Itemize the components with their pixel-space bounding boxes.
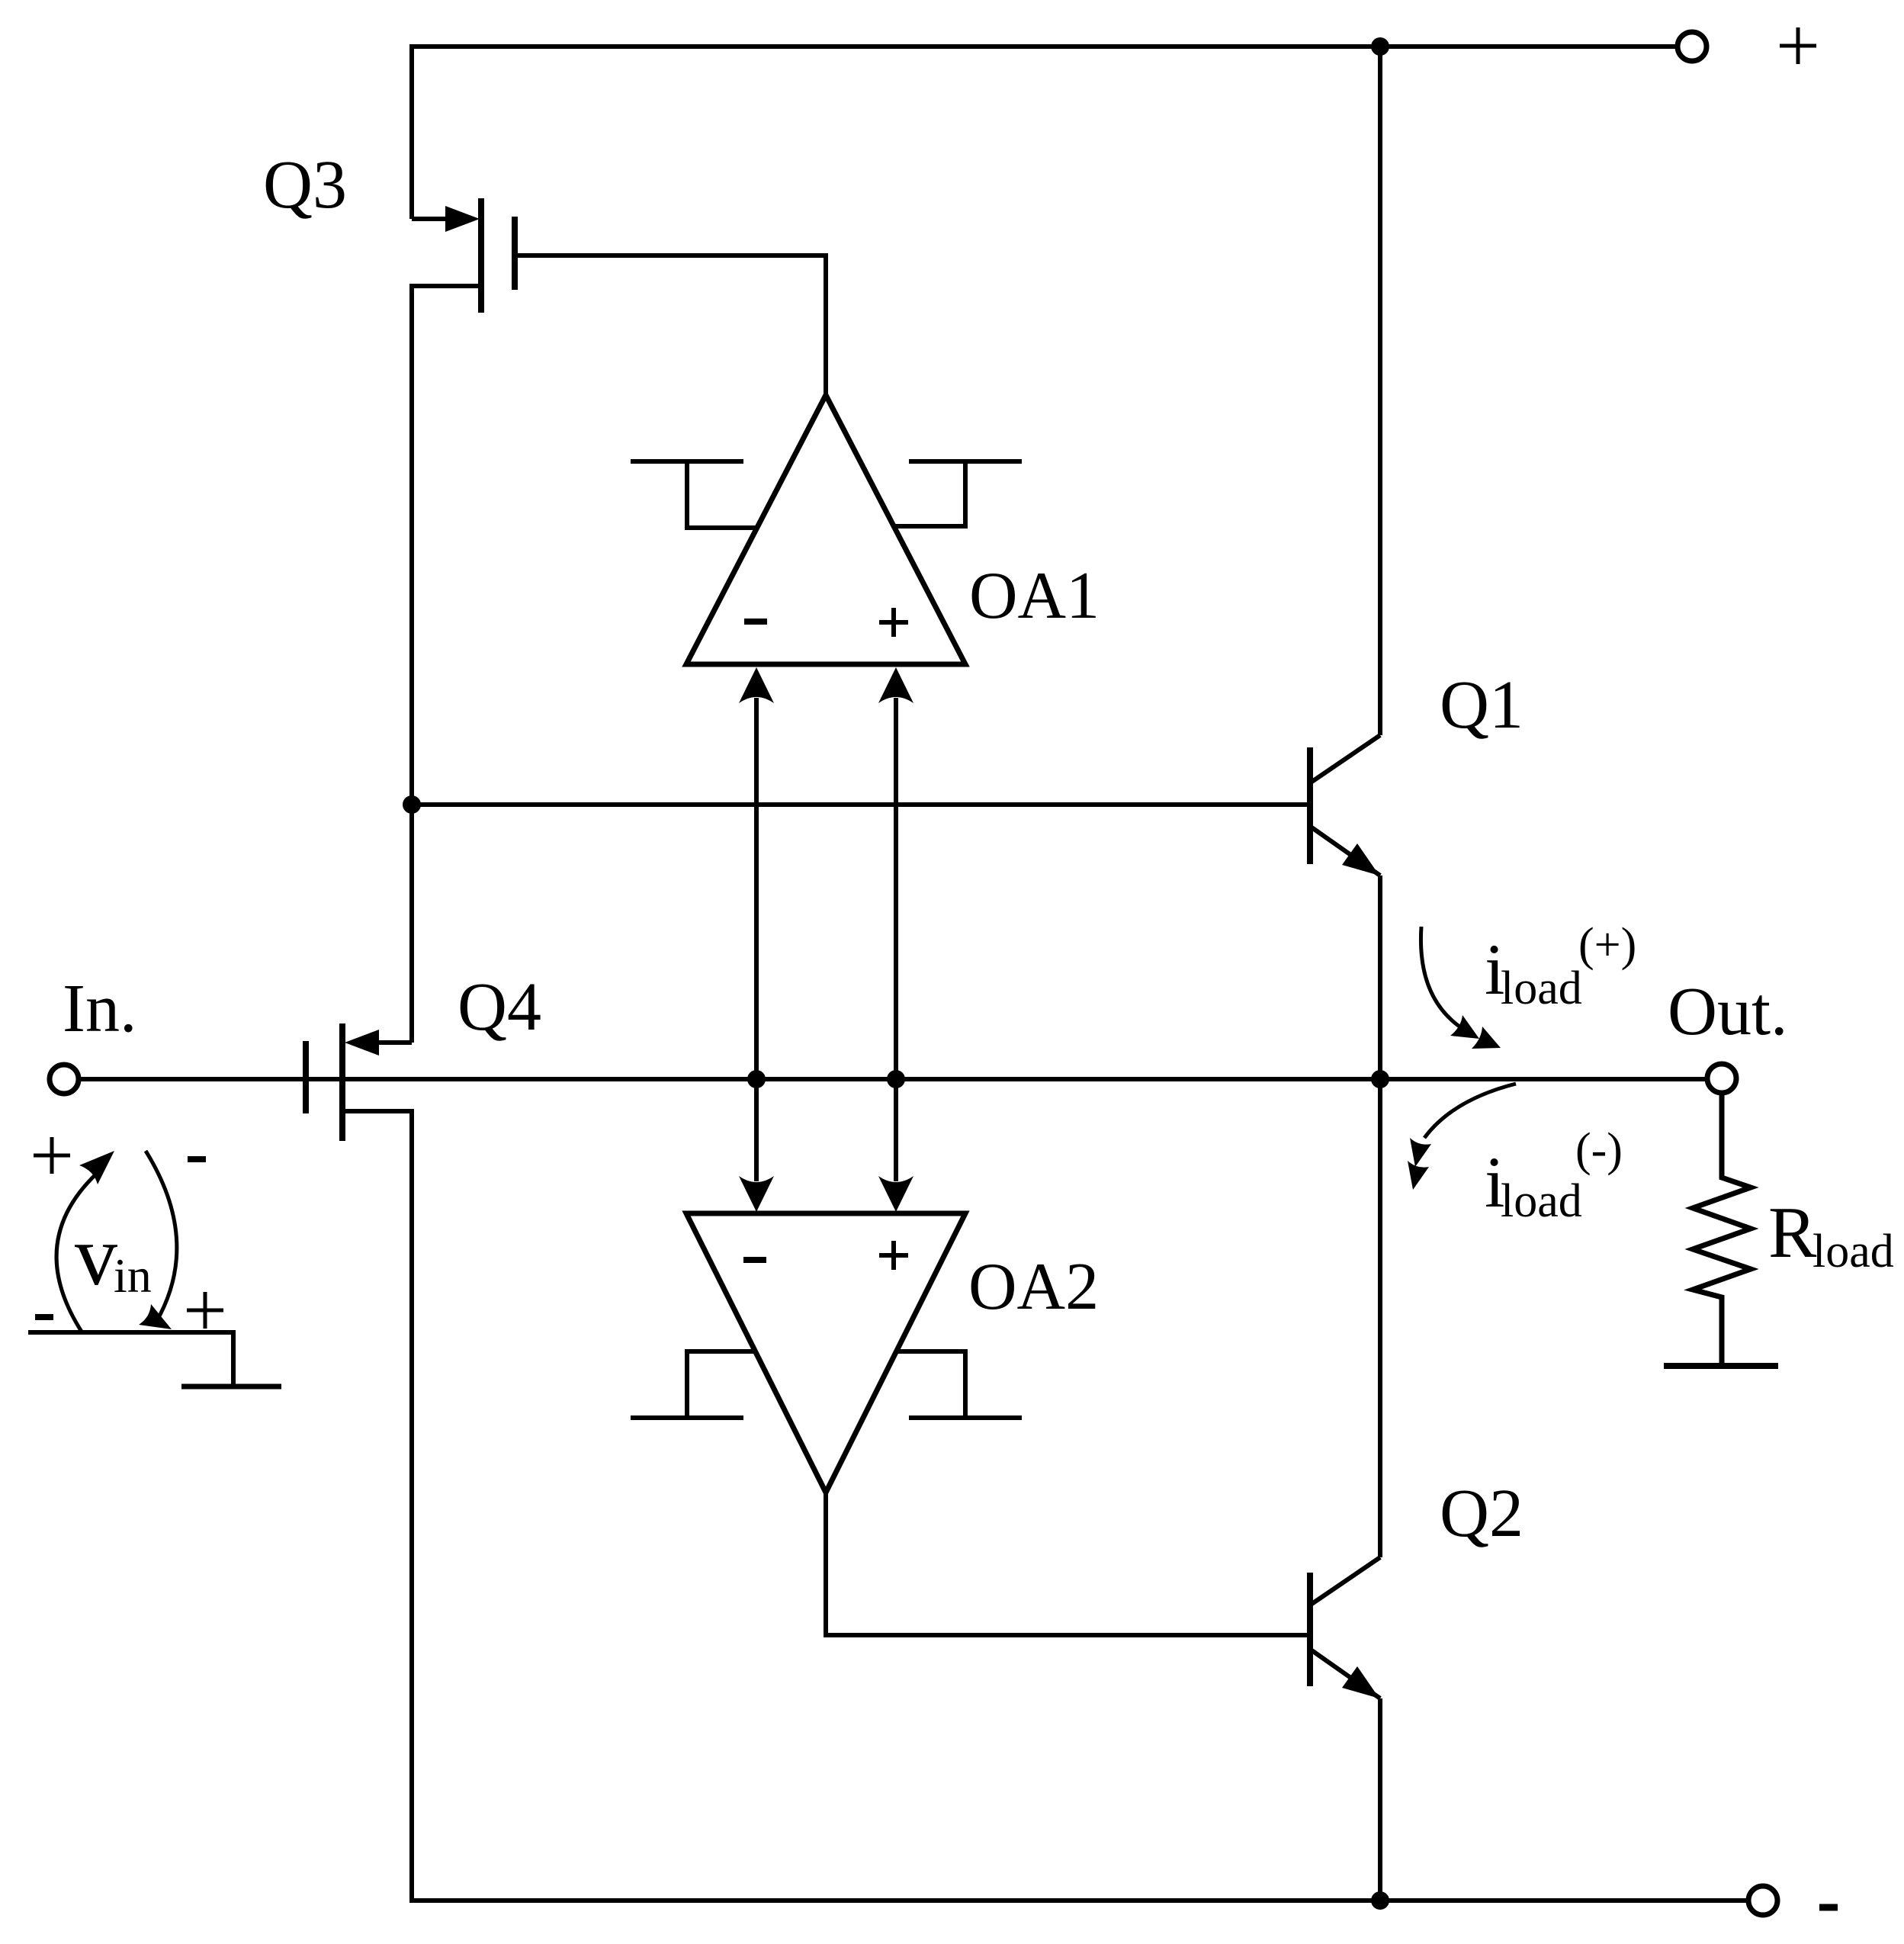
svg-text:in: in bbox=[114, 1248, 152, 1303]
svg-text:Q2: Q2 bbox=[1440, 1476, 1524, 1551]
svg-text:Out.: Out. bbox=[1668, 974, 1788, 1049]
svg-text:In.: In. bbox=[63, 971, 136, 1046]
svg-text:Q3: Q3 bbox=[263, 147, 347, 223]
svg-text:OA2: OA2 bbox=[968, 1250, 1099, 1324]
svg-text:load: load bbox=[1501, 962, 1582, 1014]
svg-text:Q1: Q1 bbox=[1440, 667, 1524, 743]
svg-text:OA1: OA1 bbox=[969, 559, 1100, 633]
svg-text:load: load bbox=[1501, 1175, 1582, 1227]
svg-text:(+): (+) bbox=[1578, 919, 1636, 971]
svg-text:R: R bbox=[1768, 1192, 1817, 1273]
svg-text:Q4: Q4 bbox=[458, 969, 541, 1045]
svg-text:(-): (-) bbox=[1575, 1124, 1623, 1176]
svg-text:v: v bbox=[75, 1209, 117, 1303]
svg-text:load: load bbox=[1812, 1226, 1894, 1277]
